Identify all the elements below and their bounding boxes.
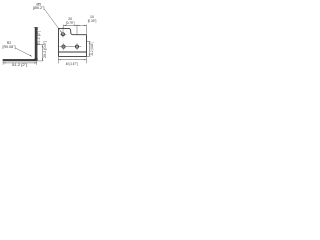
svg-text:40 [1.57"]: 40 [1.57"] (66, 62, 78, 66)
fillet leader R2 (15, 48, 32, 57)
svg-text:[Ø0.2"]: [Ø0.2"] (33, 6, 45, 10)
hole H2 (75, 45, 78, 48)
svg-text:51.2 [2"]: 51.2 [2"] (12, 63, 27, 67)
bend line (59, 51, 87, 53)
svg-text:[R0.08"]: [R0.08"] (3, 45, 16, 49)
dim 10 top (77, 25, 87, 34)
hole H3 (62, 33, 65, 36)
svg-text:20.2 [0.8"]: 20.2 [0.8"] (43, 41, 47, 58)
front view outline with step (59, 28, 87, 56)
dim 20 top (63, 25, 77, 35)
dim 51.2 vertical (side view) (34, 27, 44, 61)
svg-text:51.2 [2"]: 51.2 [2"] (37, 31, 41, 45)
dim 40 bottom (58, 57, 86, 63)
dim 21.2 right (87, 41, 90, 56)
svg-text:[0.79"]: [0.79"] (66, 21, 75, 25)
hole H1 (62, 45, 65, 48)
dim 20.2 vertical (side view) (37, 45, 44, 61)
svg-text:21.2 [0.83"]: 21.2 [0.83"] (90, 42, 94, 56)
svg-text:[0.39"]: [0.39"] (88, 19, 97, 23)
leader dia 5 (44, 9, 62, 33)
side view L profile (3, 27, 37, 61)
dim 51.2 bottom (side view) (3, 62, 37, 65)
